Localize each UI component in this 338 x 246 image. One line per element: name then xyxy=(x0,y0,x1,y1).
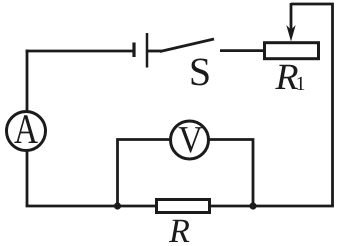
svg-text:R: R xyxy=(168,213,190,246)
junction node: right (voltmeter branch to bottom wire) xyxy=(249,202,256,209)
label R xyxy=(168,213,190,246)
wire: battery to switch pivot xyxy=(148,50,162,53)
label V xyxy=(178,119,203,161)
wire: voltmeter branch left (up from junction, across to voltmeter) xyxy=(118,140,171,207)
ammeter A circle xyxy=(7,112,46,151)
battery (cell): long positive plate xyxy=(146,33,149,68)
resistor R body xyxy=(157,200,210,213)
switch S blade (open) xyxy=(160,39,214,52)
svg-text:A: A xyxy=(14,107,39,153)
wire: top-left horizontal from left corner to battery xyxy=(26,50,133,53)
wire: left vertical below ammeter xyxy=(26,151,29,206)
wire: bottom right segment from resistor R to right corner xyxy=(210,205,334,208)
rheostat R1 wiper arrow xyxy=(286,3,295,42)
wire: voltmeter branch right (across and down to junction) xyxy=(209,140,253,207)
junction node: left (voltmeter branch to bottom wire) xyxy=(114,202,121,209)
battery (cell): short negative plate xyxy=(132,43,135,58)
wire: bottom left segment to resistor R xyxy=(26,205,156,208)
label R1 xyxy=(274,57,305,98)
voltmeter V circle xyxy=(171,121,209,159)
label S xyxy=(189,49,211,94)
wire: left vertical above ammeter xyxy=(26,50,29,111)
svg-text:V: V xyxy=(178,119,203,161)
svg-text:1: 1 xyxy=(296,73,306,95)
wire: switch fixed contact to rheostat xyxy=(220,49,264,52)
label A xyxy=(14,107,39,153)
wire: wiper to top-right corner and right vertical down xyxy=(291,4,333,206)
svg-text:S: S xyxy=(189,49,211,94)
rheostat R1 body xyxy=(265,43,319,59)
